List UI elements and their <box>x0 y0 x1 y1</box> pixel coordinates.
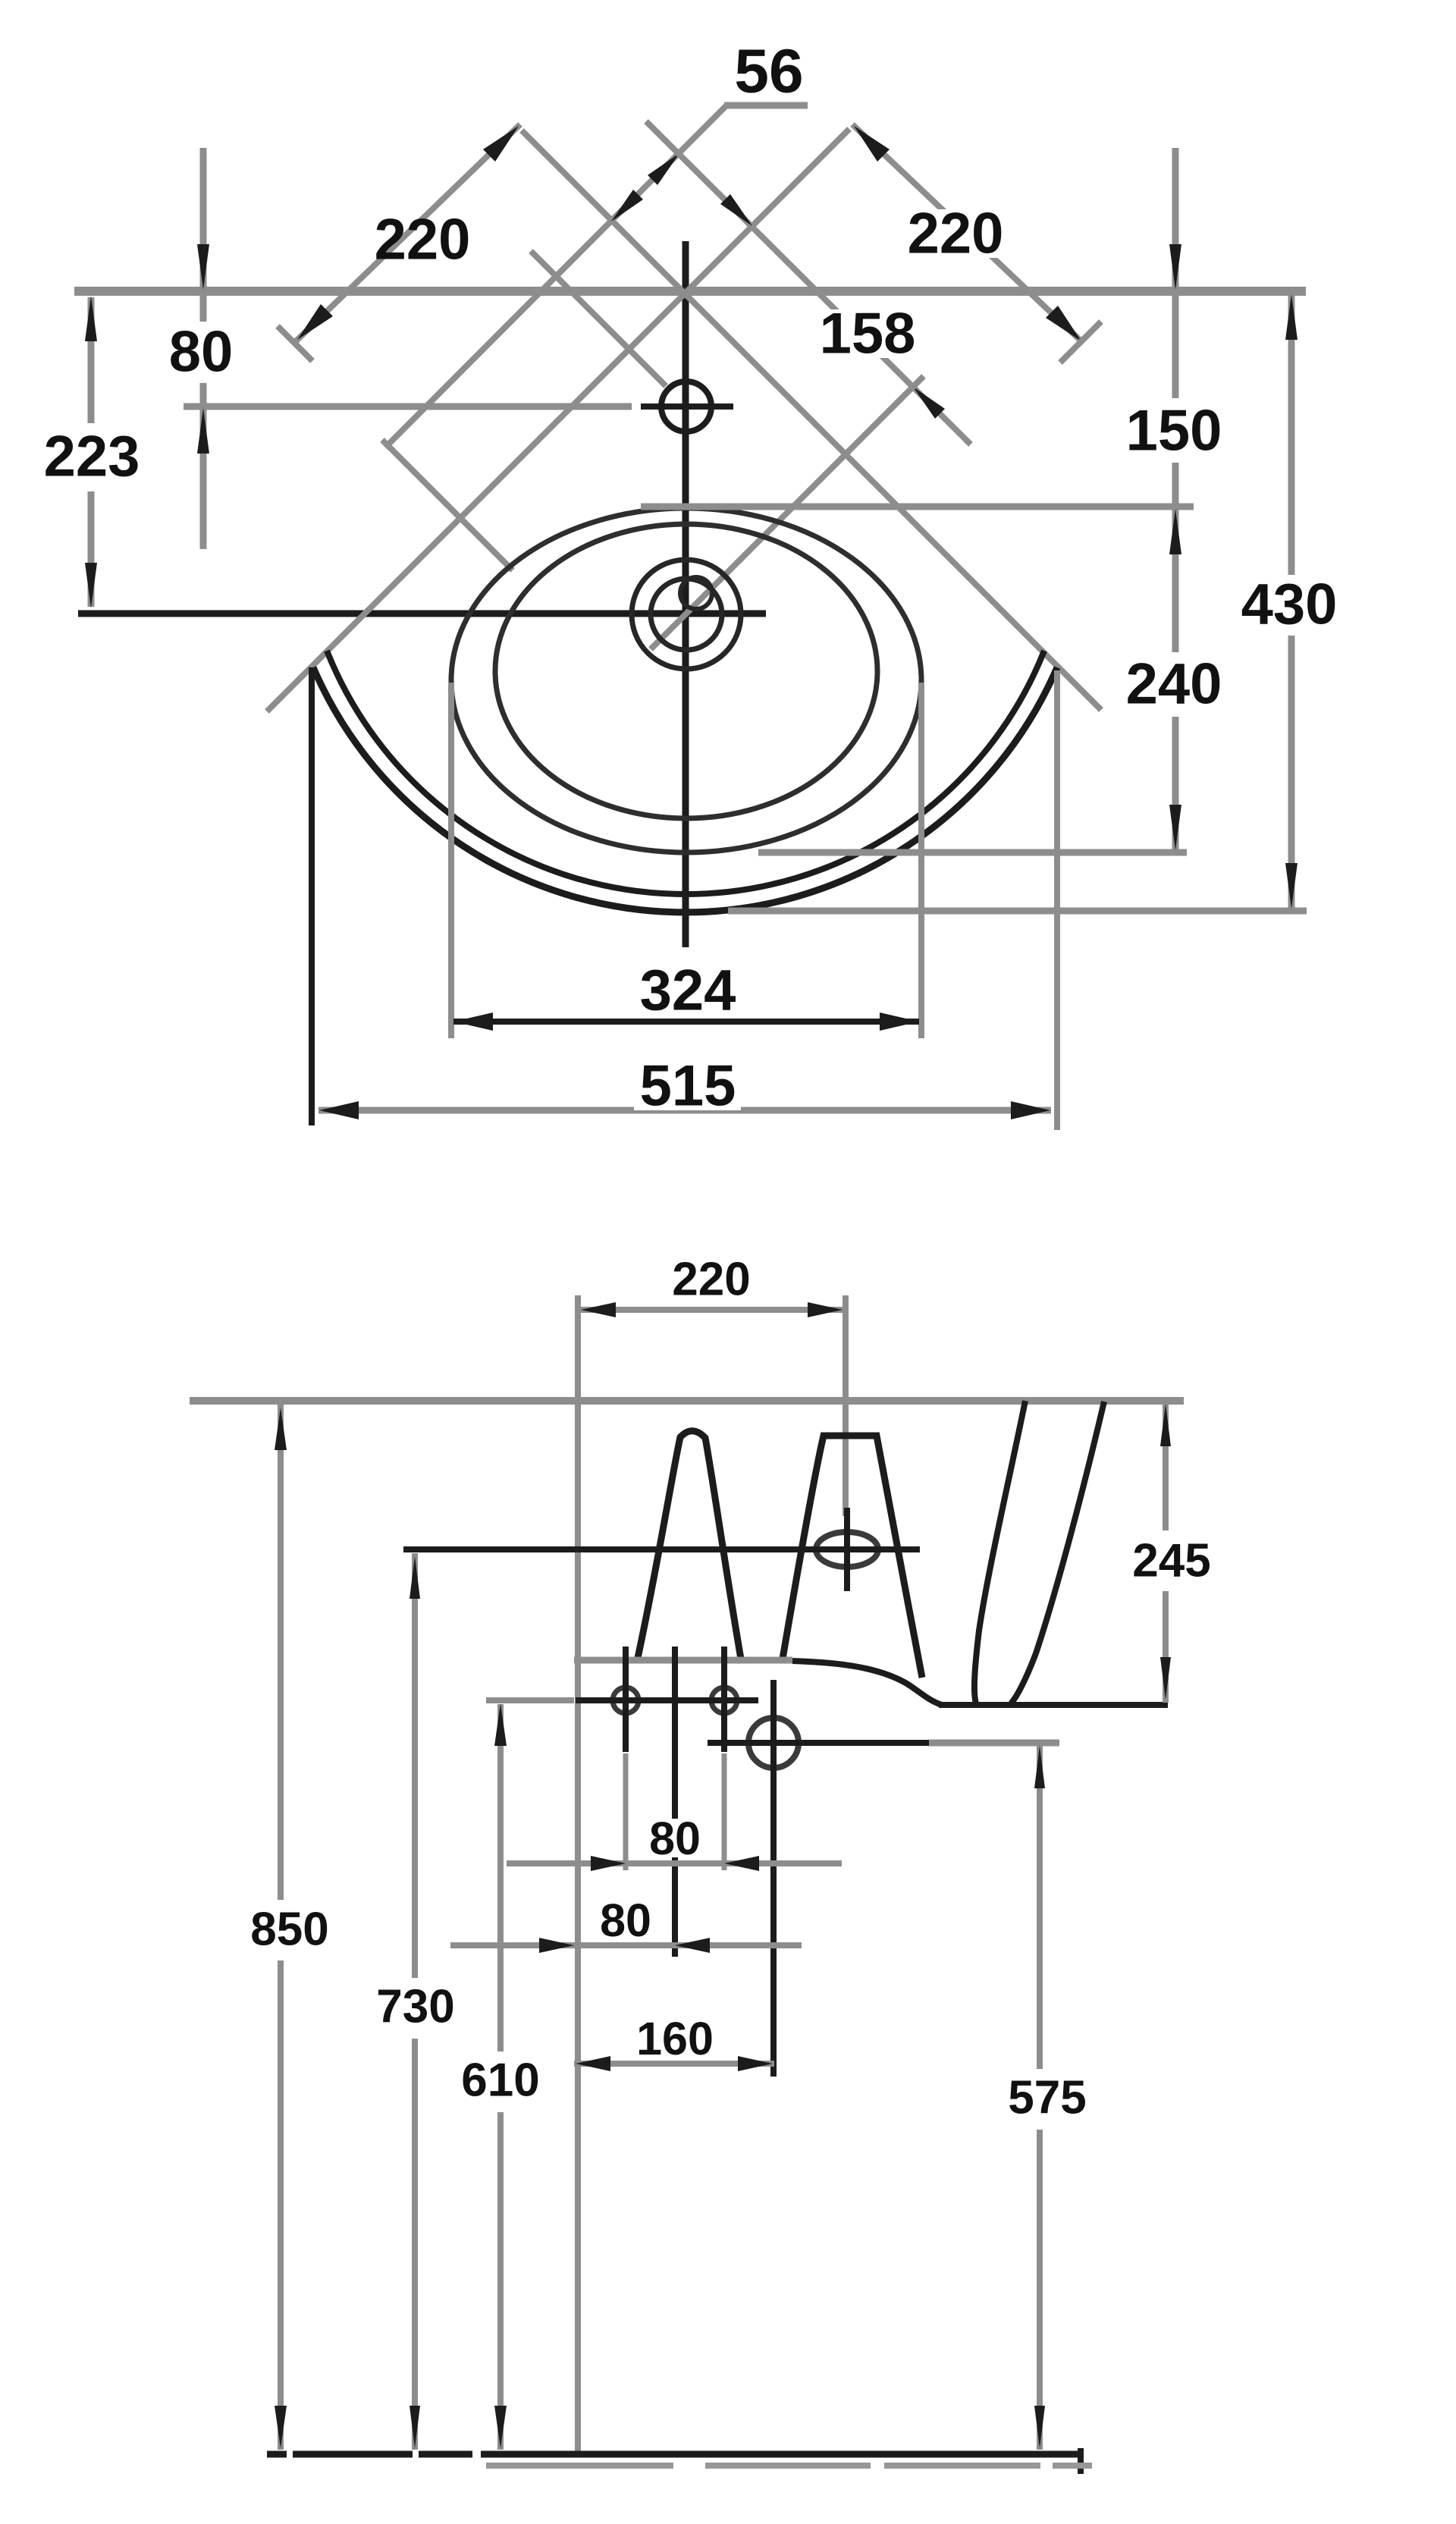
575 down arrow <box>1034 2406 1045 2448</box>
dim 515 left extension line (basin corner) <box>309 667 315 1125</box>
dim 80 up arrow <box>197 408 209 454</box>
dim 160 <box>574 2061 774 2067</box>
515 left arrow <box>319 1101 359 1119</box>
158 arrow lower <box>913 387 945 419</box>
drain small circle <box>680 577 712 609</box>
mounting cavity left (bell shape) <box>638 1431 742 1663</box>
drain outlet horizontal crosshair <box>708 1740 929 1746</box>
dim 324 left extension line <box>448 683 454 1038</box>
dim 850 vertical line <box>278 1405 284 1900</box>
oval vertical centerline <box>844 1508 850 1591</box>
dim 515 dimension line <box>318 1107 1051 1114</box>
left 220 arrow lower <box>297 304 333 340</box>
bowl inner ellipse <box>495 524 877 818</box>
front 220 left extension line / basin left edge <box>575 1295 581 2453</box>
610 reference stub line <box>486 1697 574 1703</box>
tap height centerline y=2043 <box>403 1546 920 1552</box>
right 220 arrow upper <box>854 126 890 162</box>
158 arrow upper <box>720 194 752 226</box>
160 right arrow <box>738 2056 773 2071</box>
drain outlet vertical crosshair <box>770 1680 777 2077</box>
dim 223 down arrow <box>85 563 97 608</box>
bowl tangent diagonal segment <box>382 440 513 570</box>
fixing hole left circle <box>613 1687 639 1713</box>
150/240 up arrow <box>1169 509 1181 554</box>
dim 158 line (45 deg) <box>646 121 971 444</box>
floor right end tick <box>1078 2448 1084 2474</box>
730 up arrow <box>409 1556 420 1599</box>
basin front reference line y=1201 <box>728 908 1307 915</box>
left 220 end tick <box>278 326 312 361</box>
mount underside line <box>574 1657 792 1664</box>
245 down arrow <box>1160 1657 1171 1700</box>
svg-text:610: 610 <box>461 2055 539 2107</box>
fixing hole right vertical <box>721 1647 727 1752</box>
80a left arrow <box>591 1856 626 1871</box>
dim 515 right extension line <box>1054 670 1060 1130</box>
profile curve near <box>974 1401 1025 1703</box>
profile curve far <box>1011 1402 1104 1703</box>
dim 80 lower <box>450 1942 802 1948</box>
dim 223 up arrow <box>85 296 97 341</box>
label 730 <box>372 1987 459 2026</box>
label 610 <box>457 2061 544 2100</box>
fixing holes horizontal line <box>576 1697 758 1703</box>
label 150 <box>1120 407 1227 455</box>
dim 324 dimension line <box>453 1019 919 1025</box>
main vertical centerline <box>682 241 689 947</box>
overflow oval <box>816 1532 878 1567</box>
515 right arrow <box>1011 1101 1050 1119</box>
basin inner front arc <box>327 651 1044 894</box>
324 right arrow <box>880 1012 919 1031</box>
floor secondary gray line <box>486 2463 673 2469</box>
240 down arrow <box>1169 805 1181 850</box>
label 223 <box>38 432 145 481</box>
850 down arrow <box>275 2406 287 2448</box>
730 down arrow <box>409 2406 420 2448</box>
tap hole diagonal axis <box>531 251 666 386</box>
dim 610 vertical line <box>497 1704 504 2052</box>
dim 150/240 vertical line <box>1172 148 1179 398</box>
front view: wall top line <box>190 1397 1184 1405</box>
front 220 right arrow <box>808 1302 843 1317</box>
svg-text:158: 158 <box>820 302 916 366</box>
430 up arrow <box>1285 294 1298 340</box>
dim 80 upper (fixing holes) <box>507 1860 842 1866</box>
80b right arrow <box>675 1938 710 1953</box>
front 220 right extension line <box>843 1295 849 1516</box>
svg-text:220: 220 <box>908 202 1004 266</box>
floor line <box>267 2451 287 2458</box>
svg-text:220: 220 <box>672 1254 750 1306</box>
label 80b front <box>597 1901 654 1939</box>
svg-text:850: 850 <box>250 1904 328 1956</box>
dim 575 vertical line <box>1037 1746 1043 2069</box>
right 220 arrow lower <box>1046 306 1081 341</box>
56 arrow upper <box>648 153 679 185</box>
dim 223 vertical line <box>88 297 95 423</box>
dim 56 underline <box>724 102 808 109</box>
80b left arrow <box>539 1938 574 1953</box>
label 575 <box>1003 2078 1090 2117</box>
dim 80 down arrow <box>197 244 209 290</box>
label 240 <box>1120 660 1227 708</box>
dim 56 leader line <box>385 106 726 447</box>
label 515 <box>634 1062 741 1110</box>
150 top down arrow <box>1169 244 1181 290</box>
label 220 right <box>902 209 1009 258</box>
bowl top reference line y=668 <box>641 504 1194 510</box>
svg-text:80: 80 <box>169 320 234 385</box>
245 up arrow <box>1160 1404 1171 1446</box>
dim 430 vertical line <box>1288 296 1295 575</box>
610 up arrow <box>494 1703 507 1746</box>
label 430 <box>1235 580 1342 629</box>
svg-text:160: 160 <box>636 2013 714 2064</box>
svg-text:240: 240 <box>1126 652 1222 717</box>
drain inner circle <box>651 579 722 650</box>
underside S-bend curve <box>792 1661 942 1705</box>
basin bottom edge line <box>939 1702 1168 1708</box>
dim 730 vertical line <box>412 1553 418 1978</box>
middle crosshair vertical <box>672 1647 678 1957</box>
tap hole crosshair <box>641 403 733 410</box>
bowl outer ellipse <box>451 508 921 852</box>
right 220 dimension line <box>852 124 1083 343</box>
label 160 <box>632 2019 717 2058</box>
svg-text:324: 324 <box>640 959 736 1023</box>
ledge reference line <box>929 1740 1059 1747</box>
front 220 left arrow <box>581 1302 616 1317</box>
basin outer front arc <box>313 667 1057 912</box>
label 158 <box>814 309 921 358</box>
bowl bottom reference line y=1124 <box>758 849 1187 856</box>
430 down arrow <box>1285 863 1298 909</box>
drain outlet circle <box>748 1718 799 1768</box>
label 80 plan <box>165 328 237 376</box>
svg-text:220: 220 <box>375 208 471 272</box>
svg-text:515: 515 <box>640 1054 736 1119</box>
svg-text:80: 80 <box>600 1895 651 1946</box>
tap hole circle <box>661 381 711 432</box>
dim 80 vertical line (plan left) <box>200 148 207 322</box>
dim 245 vertical line <box>1163 1401 1169 1530</box>
bowl horizontal centerline <box>78 611 766 617</box>
svg-text:575: 575 <box>1008 2072 1086 2124</box>
575 up arrow <box>1034 1746 1045 1788</box>
850 up arrow <box>275 1408 287 1450</box>
svg-text:80: 80 <box>649 1813 701 1864</box>
svg-text:245: 245 <box>1132 1535 1210 1587</box>
label 80a front <box>646 1819 704 1857</box>
left 220 arrow upper <box>483 126 519 162</box>
fixing hole right circle <box>711 1687 737 1713</box>
label 850 <box>246 1910 333 1949</box>
right 220 end tick <box>1060 322 1101 363</box>
80a right arrow <box>724 1856 759 1871</box>
dim 324 right extension line <box>918 683 924 1038</box>
svg-text:730: 730 <box>376 1981 454 2033</box>
label 245 <box>1128 1541 1215 1581</box>
drain diagonal axis <box>651 376 924 649</box>
right wall line (45 deg) <box>522 130 1101 710</box>
fixing hole left vertical <box>623 1647 629 1752</box>
left 220 dimension line <box>296 124 520 341</box>
plan view: wall reference line <box>74 287 1306 296</box>
160 left arrow <box>576 2056 610 2071</box>
front 220 dimension line <box>578 1307 846 1313</box>
svg-text:150: 150 <box>1126 399 1222 463</box>
mounting cavity right (trapezoid) <box>782 1436 922 1678</box>
610 down arrow <box>494 2406 507 2448</box>
svg-text:56: 56 <box>734 37 803 106</box>
drain outer circle <box>632 560 741 669</box>
svg-text:430: 430 <box>1241 573 1338 637</box>
324 left arrow <box>453 1012 493 1031</box>
56 arrow lower <box>611 190 643 221</box>
left wall line (45 deg) <box>267 129 849 711</box>
plan view: tap hole reference line y=536 <box>184 403 632 410</box>
svg-text:223: 223 <box>44 425 140 489</box>
